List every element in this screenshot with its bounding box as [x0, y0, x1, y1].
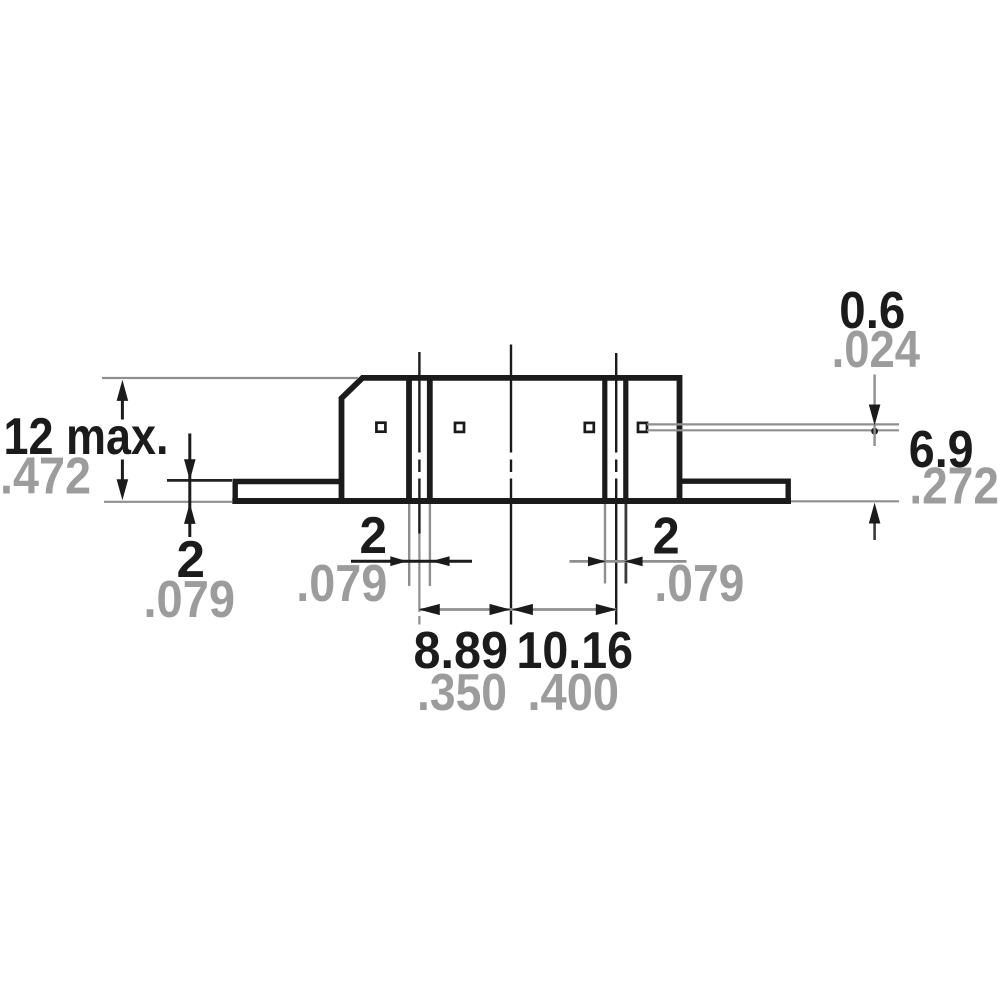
right lead center line	[615, 353, 617, 625]
svg-text:.472: .472	[0, 447, 91, 505]
left mounting tab	[235, 482, 343, 504]
right mounting tab	[678, 481, 788, 503]
bottom extension line right	[791, 500, 899, 502]
0.6 dimension arrow with dot	[869, 375, 881, 447]
svg-text:.350: .350	[417, 663, 507, 721]
pin mark square 4	[638, 423, 647, 432]
pin mark square 1	[376, 423, 385, 432]
lead2 width dimension (2)	[570, 557, 687, 567]
body bottom edge	[232, 498, 791, 504]
svg-text:.079: .079	[654, 554, 744, 612]
top extension line (12 max)	[102, 377, 358, 379]
svg-text:.079: .079	[144, 570, 236, 628]
tab top extension line	[167, 479, 232, 482]
left lead center line	[418, 352, 420, 625]
left lead edge lines	[409, 378, 430, 503]
svg-text:.024: .024	[832, 320, 921, 378]
standoff reference line lower (0.6)	[647, 429, 899, 431]
svg-text:.272: .272	[909, 457, 999, 515]
pin mark square 2	[455, 423, 464, 432]
8.89 dimension	[419, 604, 511, 615]
svg-text:.400: .400	[528, 663, 620, 721]
bottom extension line left	[104, 501, 232, 503]
pin mark square 3	[585, 423, 594, 432]
tab thickness dimension arrows (2)	[184, 434, 196, 538]
standoff reference line upper (0.6)	[647, 423, 899, 425]
body outline	[342, 378, 680, 503]
lead1 width dimension (2)	[351, 556, 472, 566]
right lead extension lines below body	[605, 504, 626, 584]
10.16 dimension	[511, 604, 617, 615]
left lead extension lines below body	[409, 504, 430, 586]
12 max dimension arrows	[117, 380, 129, 501]
svg-text:.079: .079	[296, 554, 387, 612]
6.9 dimension arrow	[869, 503, 881, 540]
main center line	[510, 345, 512, 625]
right lead edge lines	[605, 378, 626, 503]
